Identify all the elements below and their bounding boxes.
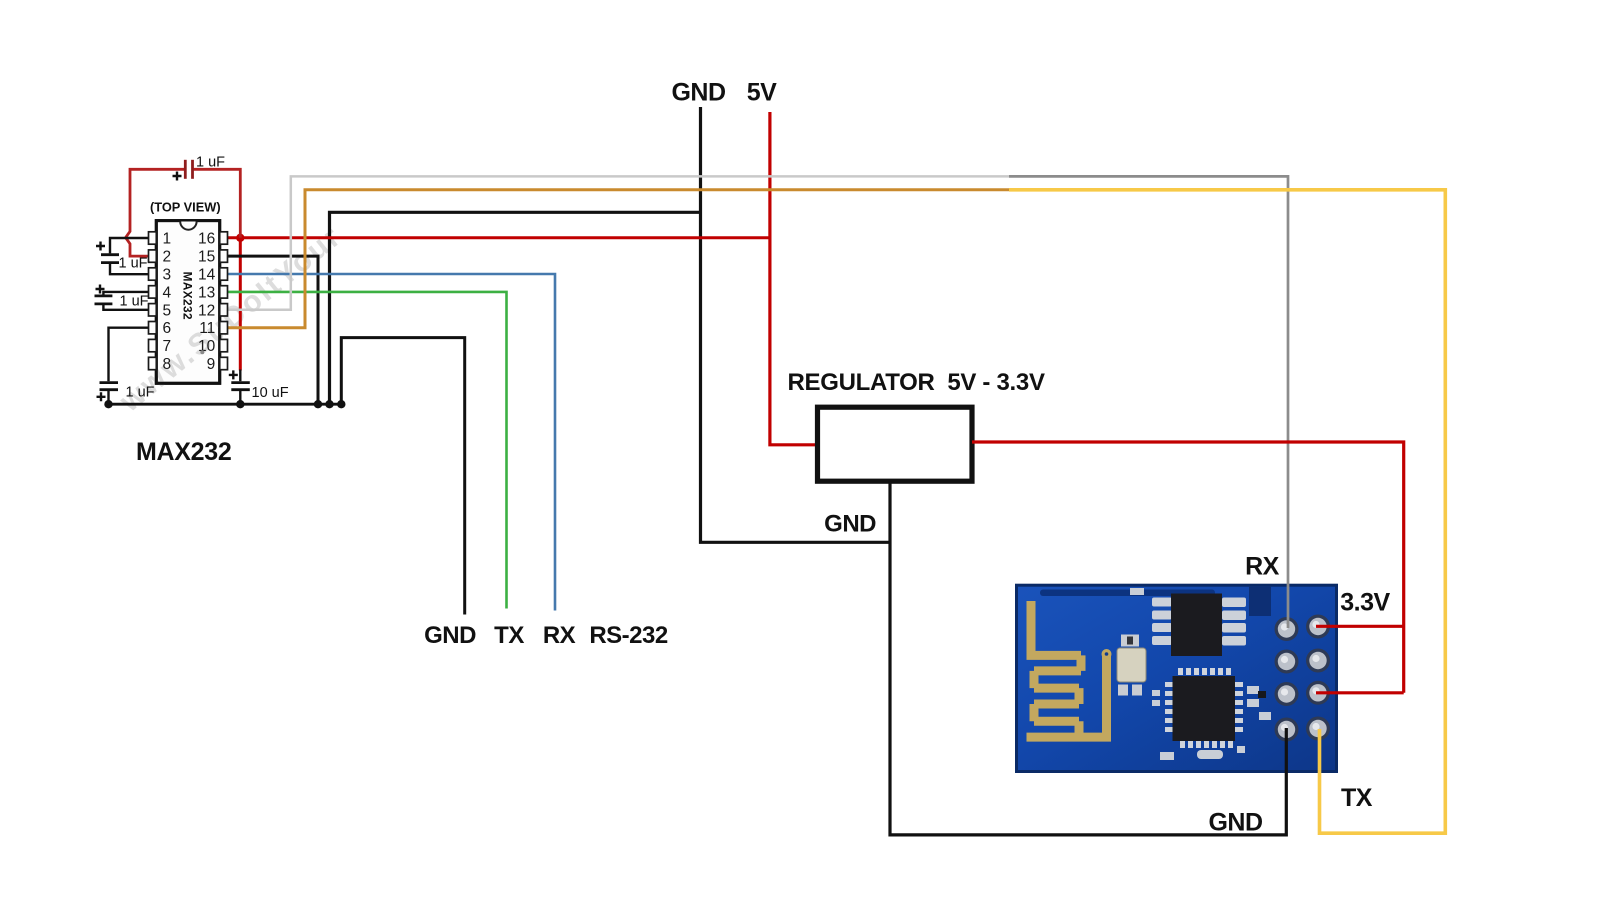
capacitor C5 10uF	[239, 370, 241, 382]
svg-text:7: 7	[163, 338, 172, 355]
capacitor C1 1uF top red loop pin2 to pin16	[126, 169, 184, 256]
wire pin12 gray (light segment)	[226, 176, 1009, 309]
node pin16 junction dot	[236, 234, 244, 242]
QFP bottom leads	[1180, 741, 1185, 748]
wire ground bus	[106, 403, 342, 406]
svg-text:TX: TX	[494, 622, 524, 649]
wire pin16 to 5V (red)	[226, 236, 770, 239]
svg-text:3: 3	[163, 267, 172, 284]
capacitor C4 1uF pin6 to ground	[109, 328, 149, 382]
wire 5V red vertical to regulator input	[770, 112, 818, 445]
svg-text:14: 14	[198, 267, 216, 284]
svg-text:10 uF: 10 uF	[252, 385, 289, 401]
QFP chip body	[1173, 676, 1236, 741]
svg-text:2: 2	[163, 249, 172, 266]
pin boxes right 16-9	[220, 232, 228, 244]
svg-text:RX: RX	[543, 622, 576, 649]
wire pin11 orange segment	[226, 190, 1009, 328]
QFP silkscreen dashes	[1165, 668, 1243, 748]
svg-text:(TOP VIEW): (TOP VIEW)	[150, 200, 221, 215]
wire regulator ground to ESP GND pin	[890, 481, 1286, 835]
wire GND top vertical and to regulator gnd	[701, 107, 891, 542]
capacitor C2 1uF pins 1-3	[110, 238, 148, 253]
svg-text:1 uF: 1 uF	[119, 256, 148, 272]
wire red branch to ESP VCC pin	[1316, 625, 1404, 628]
svg-text:16: 16	[198, 231, 215, 248]
small parts	[1130, 588, 1271, 760]
svg-text:MAX232: MAX232	[136, 438, 231, 466]
capacitor C3 1uF pins 4-5	[103, 292, 148, 295]
QFP right leads	[1235, 682, 1243, 687]
wire gray dark segment to ESP RX pin	[1009, 176, 1288, 628]
wire pin14 blue to RX RS-232	[226, 274, 555, 611]
wire red branch to ESP CH_PD pin	[1316, 691, 1404, 694]
watermark	[113, 219, 348, 418]
flash chip body	[1171, 594, 1222, 657]
svg-text:GND: GND	[671, 79, 725, 107]
svg-text:9: 9	[207, 356, 216, 373]
pin10 indicator dot	[200, 350, 204, 354]
svg-text:5: 5	[163, 302, 172, 319]
svg-text:13: 13	[198, 284, 215, 301]
svg-text:RS-232: RS-232	[589, 622, 668, 649]
svg-text:12: 12	[198, 302, 215, 319]
svg-text:TX: TX	[1341, 784, 1373, 812]
node bus dots	[104, 400, 345, 408]
op-amp U1 outline details (MAX232)	[149, 200, 228, 384]
svg-text:RX: RX	[1245, 553, 1280, 581]
svg-text:1 uF: 1 uF	[126, 385, 155, 401]
wire yellow segment to ESP TX pin	[1009, 190, 1445, 833]
svg-text:1 uF: 1 uF	[196, 155, 225, 171]
PCB	[1017, 585, 1337, 771]
svg-text:11: 11	[199, 320, 215, 337]
svg-text:5V: 5V	[747, 79, 777, 107]
crystal	[1121, 635, 1139, 647]
QFP left leads	[1165, 682, 1173, 687]
svg-text:4: 4	[163, 284, 172, 301]
svg-text:3.3V: 3.3V	[1340, 589, 1390, 617]
regulator box	[818, 407, 973, 481]
notch	[180, 222, 196, 230]
wire regulator output red to ESP power pins	[972, 442, 1404, 693]
svg-text:REGULATOR 5V - 3.3V: REGULATOR 5V - 3.3V	[788, 369, 1045, 396]
svg-text:1: 1	[163, 231, 172, 248]
svg-text:6: 6	[163, 320, 172, 337]
svg-text:GND: GND	[824, 511, 876, 538]
svg-text:1 uF: 1 uF	[120, 294, 149, 310]
ESP8266 ESP-01 module	[1017, 585, 1337, 771]
antenna trace	[1027, 601, 1112, 737]
svg-text:GND: GND	[1208, 809, 1262, 837]
wire red vertical pin16 to 10uF cap	[239, 238, 242, 371]
pin numbers	[163, 231, 216, 374]
wire GND branch to MAX232 ground bus	[330, 212, 701, 404]
pin boxes left 1-8	[149, 232, 228, 370]
wire RS-232 ground black	[341, 338, 464, 615]
header pins 2x4	[1275, 615, 1331, 742]
wire pin13 green to TX RS-232	[226, 292, 507, 609]
op-amp U1 body fill (MAX232 IC body)	[156, 221, 219, 384]
svg-text:15: 15	[198, 249, 215, 266]
svg-text:8: 8	[163, 356, 172, 373]
svg-text:MAX232: MAX232	[181, 272, 195, 320]
wire pin15 to ground bus	[226, 256, 318, 404]
svg-text:GND: GND	[424, 622, 476, 649]
flash chip leads	[1152, 598, 1246, 646]
